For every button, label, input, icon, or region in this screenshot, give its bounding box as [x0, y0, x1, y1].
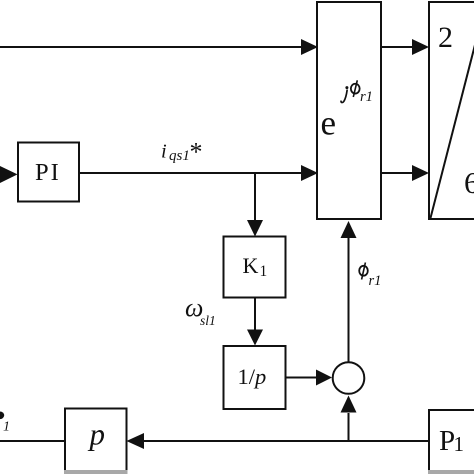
svg-text:1: 1 [3, 420, 10, 435]
svg-text:2: 2 [438, 21, 453, 54]
svg-text:*: * [190, 138, 203, 167]
svg-text:PI: PI [35, 159, 61, 186]
svg-text:6: 6 [464, 165, 474, 200]
svg-text:1: 1 [260, 263, 268, 280]
svg-text:e: e [321, 104, 337, 143]
svg-text:K: K [243, 253, 259, 278]
svg-text:i: i [161, 141, 167, 163]
svg-text:r1: r1 [360, 89, 373, 105]
svg-text:p: p [88, 417, 106, 452]
svg-text:r1: r1 [369, 273, 382, 289]
svg-text:1/p: 1/p [238, 364, 267, 389]
svg-text:1: 1 [454, 432, 465, 456]
svg-text:qs1: qs1 [169, 148, 190, 164]
svg-text:sl1: sl1 [200, 313, 216, 328]
